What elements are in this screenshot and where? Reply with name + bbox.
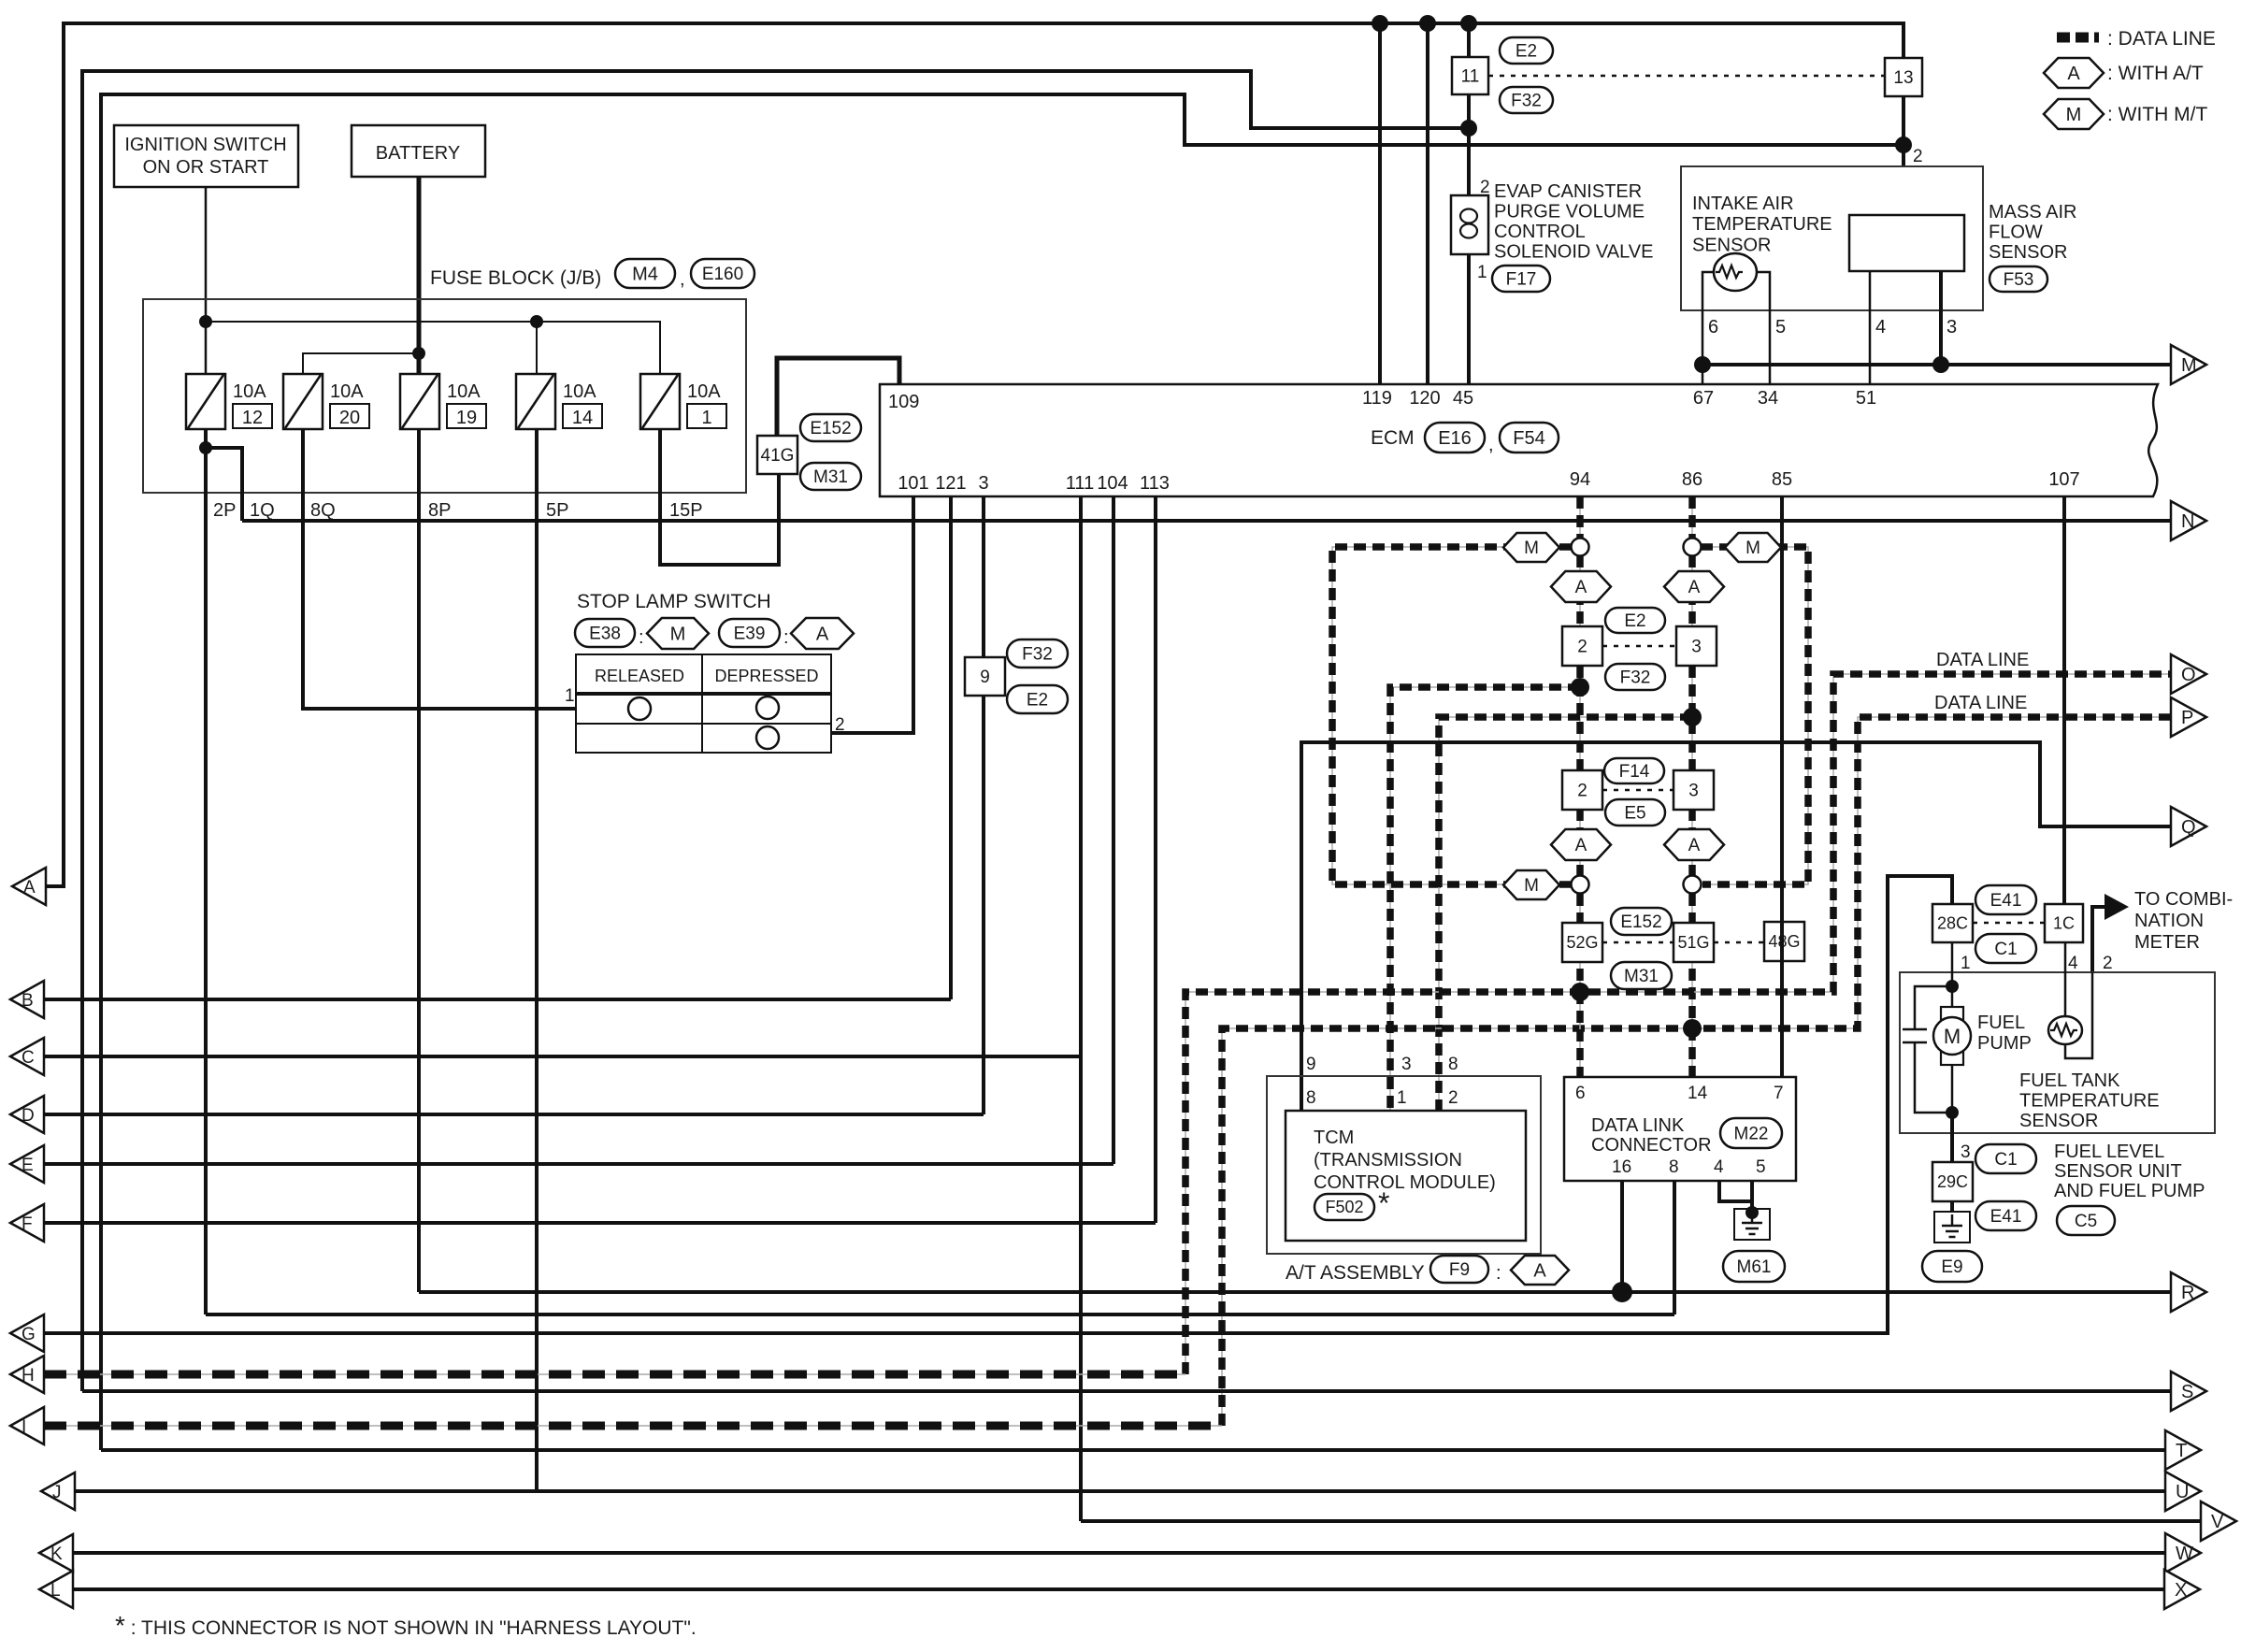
svg-text:STOP LAMP SWITCH: STOP LAMP SWITCH — [577, 591, 771, 612]
wire ECM pin 104 to arrow E — [1112, 496, 1115, 1164]
svg-text:11: 11 — [1461, 66, 1480, 86]
connector terminal 48G — [1764, 922, 1804, 961]
wire J/U line — [74, 1489, 2165, 1493]
wire net-A top bus: arrow A up left side and across top — [44, 23, 1903, 886]
svg-text:1: 1 — [1477, 263, 1487, 282]
wire to combination meter with arrowhead — [2092, 907, 2105, 972]
fuse 20 10A — [283, 374, 323, 429]
svg-text:A: A — [1688, 578, 1701, 597]
hexagon A (E39 with A/T) — [791, 618, 854, 649]
svg-text::: : — [639, 627, 644, 648]
svg-text:7: 7 — [1774, 1084, 1784, 1103]
fuse 12 10A — [186, 374, 225, 429]
svg-text:,: , — [680, 269, 685, 290]
svg-text:F9: F9 — [1449, 1260, 1470, 1280]
svg-text:34: 34 — [1758, 388, 1778, 409]
svg-text:FUEL: FUEL — [1977, 1013, 2025, 1033]
connector terminal 9 — [965, 657, 1005, 696]
arrow S — [2171, 1372, 2206, 1411]
connector terminal 3 (F14/E5) — [1674, 770, 1714, 810]
wire L/X line — [74, 1587, 2164, 1591]
svg-text:TCM: TCM — [1314, 1128, 1354, 1148]
junction dot DLC16/R — [1612, 1282, 1632, 1302]
svg-text:A: A — [1533, 1260, 1546, 1281]
svg-text:FUEL LEVEL: FUEL LEVEL — [2054, 1142, 2164, 1162]
svg-text:A: A — [2067, 64, 2080, 84]
arrow M — [2171, 345, 2206, 384]
wire fuse1 to 15P pin, elbow to 41G — [660, 429, 779, 565]
arrow D — [10, 1096, 44, 1133]
svg-text:1: 1 — [565, 686, 575, 706]
junction dots on top bus — [1372, 15, 1388, 32]
connector E2 oval (mid) — [1605, 608, 1665, 633]
wire fuse12 to 2P pin — [204, 429, 208, 1314]
svg-text:MASS AIR: MASS AIR — [1989, 202, 2076, 223]
svg-text:E160: E160 — [702, 265, 743, 284]
junction dot T-net at MAF pin2 (2036,155) — [1895, 136, 1912, 153]
wire conn13 to MAF junction vertical — [1902, 96, 1905, 215]
connector terminal 51G — [1674, 923, 1714, 962]
svg-text:,: , — [1488, 435, 1494, 455]
svg-text:8: 8 — [1448, 1055, 1458, 1074]
svg-text:4: 4 — [1875, 317, 1886, 338]
svg-text:I: I — [22, 1417, 26, 1437]
svg-text:N: N — [2181, 511, 2194, 532]
connector F9 oval — [1430, 1256, 1488, 1283]
svg-text:M: M — [1524, 539, 1539, 558]
svg-text:86: 86 — [1682, 469, 1702, 490]
wire DLC pin 8 to 2P line — [1673, 1181, 1676, 1314]
data line LD1: H riser, across, up to O — [1185, 674, 2171, 1374]
connector circle on 86 line (bottom) — [1684, 876, 1702, 894]
svg-text:45: 45 — [1453, 388, 1473, 409]
svg-text:2: 2 — [2103, 954, 2113, 973]
legend M hexagon with M/T — [2044, 99, 2104, 129]
connector E41 oval (29C) — [1975, 1201, 2036, 1230]
junction dot conn11 net at (1571,137) — [1460, 120, 1477, 136]
svg-text:M: M — [1745, 539, 1760, 558]
svg-text:J: J — [52, 1483, 62, 1502]
connector F53 oval — [1990, 266, 2047, 292]
svg-text:C1: C1 — [1994, 940, 2017, 959]
svg-text:INTAKE AIR: INTAKE AIR — [1692, 194, 1794, 214]
svg-text:2: 2 — [1913, 147, 1923, 166]
svg-text:M22: M22 — [1734, 1124, 1769, 1143]
svg-text:109: 109 — [888, 392, 919, 412]
arrow R — [2171, 1272, 2206, 1312]
fuse block internal bus — [206, 322, 660, 374]
wire ECM pin 85 through 48G to DLC 7 — [1780, 496, 1784, 1077]
hexagon A on 86 (bottom) — [1664, 829, 1724, 860]
fuel level sensor unit box — [1900, 972, 2215, 1133]
wire net-T upper run: left riser x=108 to MAF pin2 junction — [101, 94, 1903, 1450]
dotted link 2-3 — [1602, 645, 1676, 648]
svg-text:F32: F32 — [1022, 644, 1053, 664]
svg-text:9: 9 — [1306, 1055, 1316, 1074]
wire DLC pin 4 to ground — [1719, 1181, 1752, 1201]
svg-text:5: 5 — [1756, 1157, 1766, 1177]
connector E152 oval (41G) — [800, 414, 861, 441]
wire 28C pin 1 into fuel pump — [1951, 942, 1954, 1007]
hexagon M left (top) — [1503, 533, 1559, 562]
svg-text:E152: E152 — [810, 419, 851, 438]
svg-text:3: 3 — [1691, 637, 1702, 656]
fuse block battery sub-bus — [303, 353, 419, 374]
A/T assembly box — [1267, 1076, 1541, 1254]
svg-text:10A: 10A — [330, 381, 364, 402]
svg-text:10A: 10A — [233, 381, 266, 402]
fuel pump capacitor branch — [1915, 986, 1952, 1029]
svg-text:C5: C5 — [2075, 1212, 2097, 1231]
ground M61 — [1734, 1209, 1770, 1240]
svg-text:119: 119 — [1362, 388, 1392, 409]
data line dot-86 to TCM pin 8 riser — [1439, 717, 1692, 1111]
svg-text:1C: 1C — [2053, 914, 2075, 933]
connector circle on 94 line (top) — [1572, 539, 1589, 556]
svg-text:: WITH A/T: : WITH A/T — [2107, 63, 2204, 84]
svg-text:67: 67 — [1693, 388, 1714, 409]
arrow T — [2165, 1430, 2201, 1470]
MAF inner box — [1849, 215, 1964, 271]
svg-text:E16: E16 — [1438, 428, 1472, 449]
svg-text:FLOW: FLOW — [1989, 223, 2043, 243]
svg-text:A: A — [23, 878, 36, 898]
svg-text:V: V — [2211, 1512, 2224, 1532]
svg-text:U: U — [2176, 1482, 2189, 1502]
svg-text:CONNECTOR: CONNECTOR — [1591, 1135, 1712, 1156]
connector E16 oval — [1425, 423, 1485, 453]
svg-text:8: 8 — [1669, 1157, 1679, 1177]
connector terminal 28C — [1932, 904, 1973, 942]
svg-text:8: 8 — [1306, 1088, 1316, 1108]
connector terminal 2 (E2/F32) — [1562, 626, 1602, 666]
connector terminal 11 — [1452, 57, 1488, 94]
svg-text:PUMP: PUMP — [1977, 1033, 2032, 1054]
data link connector box — [1564, 1077, 1796, 1181]
hexagon A on 94 (top) — [1551, 571, 1611, 602]
svg-text:NATION: NATION — [2134, 911, 2204, 931]
connector terminal 1C — [2045, 904, 2083, 942]
svg-text:A: A — [1575, 578, 1587, 597]
arrow P — [2171, 697, 2206, 737]
svg-text:SENSOR UNIT: SENSOR UNIT — [2054, 1161, 2182, 1182]
hexagon A on 86 (top) — [1664, 571, 1724, 602]
svg-text:AND FUEL PUMP: AND FUEL PUMP — [2054, 1181, 2205, 1201]
svg-text:20: 20 — [339, 408, 360, 428]
connector terminal 29C — [1932, 1162, 1973, 1201]
intake air temperature sensor symbol — [1714, 253, 1757, 291]
connector F14 oval — [1604, 758, 1664, 783]
svg-text:B: B — [22, 991, 34, 1011]
connector F502 oval with asterisk — [1314, 1194, 1374, 1220]
wire M line — [1702, 363, 2171, 366]
svg-text:F14: F14 — [1619, 762, 1650, 782]
data line ECM pin 86 chain — [1691, 496, 1693, 539]
connector F32 oval (top) — [1500, 87, 1553, 113]
svg-text:P: P — [2181, 708, 2193, 728]
svg-text:C1: C1 — [1994, 1150, 2017, 1170]
svg-text:19: 19 — [456, 408, 477, 428]
arrow E — [10, 1145, 44, 1183]
svg-text:G: G — [22, 1325, 36, 1344]
wire ECM pin 121 to arrow B — [949, 496, 953, 999]
wire fuel pump to 29C — [1950, 1113, 1954, 1162]
svg-text:TEMPERATURE: TEMPERATURE — [1692, 214, 1832, 235]
connector E9 oval — [1922, 1251, 1982, 1282]
svg-text:10A: 10A — [563, 381, 596, 402]
svg-text:F502: F502 — [1325, 1198, 1363, 1216]
data line ECM pin 94 chain — [1579, 496, 1581, 539]
svg-text:9: 9 — [980, 668, 990, 687]
connector circle on 94 line (bottom) — [1572, 876, 1589, 894]
svg-text:F53: F53 — [2004, 270, 2034, 290]
svg-text:FUSE BLOCK (J/B): FUSE BLOCK (J/B) — [430, 267, 601, 289]
svg-text:O: O — [2181, 665, 2196, 685]
svg-text:E38: E38 — [589, 624, 621, 643]
junction dot 86/LD2 — [1683, 1019, 1702, 1038]
svg-text:28C: 28C — [1937, 914, 1968, 933]
svg-text:PURGE VOLUME: PURGE VOLUME — [1494, 202, 1645, 223]
svg-text:EVAP CANISTER: EVAP CANISTER — [1494, 181, 1642, 202]
wire fuse14 to 5P pin, to J/U line — [535, 429, 539, 1491]
svg-text:RELEASED: RELEASED — [595, 667, 684, 685]
svg-text:F17: F17 — [1506, 269, 1537, 289]
svg-text:E2: E2 — [1624, 611, 1645, 631]
svg-text:1Q: 1Q — [250, 500, 275, 521]
svg-text:51: 51 — [1856, 388, 1876, 409]
svg-text:3: 3 — [978, 473, 988, 494]
svg-text:S: S — [2181, 1382, 2193, 1402]
data line DLC pin 14 riser — [1691, 1028, 1693, 1077]
wire ECM pin 3 through connector 9 to C line and D line — [982, 496, 985, 1114]
connector E5 oval — [1605, 799, 1665, 826]
arrow L — [39, 1571, 73, 1608]
svg-text:E152: E152 — [1620, 912, 1661, 932]
svg-text:14: 14 — [572, 408, 593, 428]
svg-text:TO COMBI-: TO COMBI- — [2134, 889, 2233, 910]
wire ECM pin 120 — [1426, 23, 1429, 384]
wire ECM pin 111 to C line and V line — [1079, 496, 1083, 1521]
connector circle on 86 line (top) — [1684, 539, 1702, 556]
wire stop lamp pin 2 to ECM 101 — [831, 496, 913, 733]
svg-text:3: 3 — [1947, 317, 1957, 338]
svg-text:E2: E2 — [1027, 690, 1048, 710]
wire DLC pin 16 to R line — [1620, 1181, 1624, 1292]
svg-text:3: 3 — [1961, 1142, 1971, 1162]
svg-text:F: F — [22, 1214, 33, 1234]
legend A hexagon with A/T — [2044, 58, 2104, 88]
svg-text:120: 120 — [1409, 388, 1440, 409]
svg-text:5P: 5P — [546, 500, 568, 521]
battery box — [352, 125, 485, 177]
svg-text:107: 107 — [2048, 469, 2079, 490]
svg-text:12: 12 — [242, 408, 263, 428]
wire T line — [101, 1448, 2165, 1452]
connector M31 oval (mid) — [1611, 962, 1672, 989]
svg-text:113: 113 — [1140, 473, 1170, 494]
svg-text:8Q: 8Q — [310, 500, 336, 521]
connector E152 oval (mid) — [1611, 908, 1672, 935]
stop lamp switch table — [576, 654, 831, 753]
arrow H — [10, 1356, 44, 1393]
wire IAT pin 6 to ECM 67 — [1702, 272, 1715, 384]
arrow F — [10, 1204, 44, 1242]
wire TCM 9 / ECM 85 / DLC 7 / Q net — [1301, 742, 2171, 1111]
svg-text:6: 6 — [1575, 1084, 1586, 1103]
svg-text:E39: E39 — [734, 624, 766, 643]
svg-text::: : — [1496, 1263, 1501, 1284]
arrow O — [2171, 654, 2206, 694]
hexagon M right (top) — [1725, 533, 1781, 562]
svg-text:3: 3 — [1401, 1055, 1412, 1074]
arrow V — [2201, 1501, 2236, 1541]
data line M/T bypass left (M hexagons) — [1332, 547, 1574, 884]
svg-text:C: C — [22, 1048, 35, 1068]
svg-text:E2: E2 — [1516, 41, 1537, 61]
wire C line (arrow C to ECM 111) — [44, 1055, 1081, 1058]
svg-text:4: 4 — [1714, 1157, 1724, 1177]
svg-text:E5: E5 — [1624, 803, 1645, 823]
ground E9 — [1934, 1212, 1970, 1243]
fuel pump motor — [1941, 1007, 1963, 1020]
svg-text:1: 1 — [1397, 1088, 1407, 1108]
svg-text:A/T ASSEMBLY: A/T ASSEMBLY — [1286, 1262, 1425, 1284]
data line dot-94 to TCM pin 3 riser — [1390, 687, 1580, 1111]
wire 29C to ground E9 — [1950, 1201, 1954, 1214]
svg-text:E: E — [22, 1156, 34, 1175]
TCM box — [1286, 1111, 1526, 1241]
svg-text:M: M — [1524, 876, 1539, 896]
svg-text:M: M — [2066, 105, 2082, 125]
stop lamp switch contacts — [628, 697, 651, 720]
fuse 19 10A — [400, 374, 439, 429]
svg-text:Q: Q — [2181, 817, 2196, 838]
junction dot on 94 line — [1571, 678, 1589, 697]
connector C1 oval (29C) — [1975, 1144, 2036, 1173]
connector M31 oval (41G) — [800, 463, 861, 490]
svg-text:DATA LINE: DATA LINE — [1934, 693, 2027, 713]
arrow K — [39, 1534, 73, 1572]
svg-text:L: L — [50, 1581, 61, 1601]
connector C1 oval (28C) — [1975, 934, 2036, 963]
wire fuse20 to 8Q pin, to stop lamp switch pin 1 — [303, 429, 576, 709]
fuel tank temperature sensor — [2064, 942, 2067, 1017]
svg-text:10A: 10A — [447, 381, 481, 402]
connector M22 oval — [1720, 1118, 1782, 1148]
connector E2 oval (9) — [1007, 685, 1068, 713]
junction dot on 86 line (767) — [1683, 708, 1702, 726]
svg-text:10A: 10A — [687, 381, 721, 402]
svg-text:101: 101 — [898, 473, 928, 494]
svg-text:16: 16 — [1612, 1157, 1631, 1177]
svg-text:R: R — [2181, 1283, 2194, 1303]
svg-text:A: A — [1575, 836, 1587, 855]
svg-text:2: 2 — [1577, 637, 1587, 656]
wire R line (8P to arrow R) — [419, 1290, 2171, 1294]
svg-text:29C: 29C — [1937, 1172, 1968, 1191]
svg-text:15P: 15P — [669, 500, 703, 521]
hexagon M (bottom bypass) — [1503, 870, 1559, 899]
svg-text:5: 5 — [1775, 317, 1786, 338]
svg-text:2: 2 — [1448, 1088, 1458, 1108]
wire IAT pin 5 to ECM 34 — [1756, 272, 1770, 384]
arrow G — [10, 1314, 44, 1352]
connector terminal 3 (E2/F32) — [1676, 626, 1717, 666]
svg-text:3: 3 — [1688, 781, 1699, 800]
svg-text:2: 2 — [1577, 781, 1587, 800]
wire ECM pin 113 to arrow F — [1154, 496, 1157, 1223]
wire N line (1Q to arrow N) — [242, 519, 2171, 523]
svg-text:85: 85 — [1772, 469, 1792, 490]
svg-text:FUEL TANK: FUEL TANK — [2019, 1070, 2120, 1091]
svg-text:E41: E41 — [1990, 1207, 2022, 1227]
svg-text:METER: METER — [2134, 932, 2200, 953]
arrow I — [10, 1407, 44, 1444]
connector M4 oval — [615, 259, 675, 288]
hexagon A (A/T assembly) — [1511, 1256, 1569, 1285]
wire MAF pin 3 to M line — [1939, 271, 1943, 365]
arrow C — [10, 1038, 44, 1075]
wire ECM pin 45 via EVAP solenoid — [1467, 23, 1471, 195]
wire MAF pin 4 to ECM 51 — [1869, 271, 1872, 384]
svg-text:52G: 52G — [1566, 933, 1598, 952]
svg-text:M61: M61 — [1737, 1257, 1772, 1277]
arrow Q — [2171, 807, 2206, 846]
connector terminal 41G — [757, 436, 797, 474]
connector F17 oval — [1492, 266, 1550, 292]
arrow A — [12, 868, 46, 905]
wire battery to fuse block (thick) — [417, 177, 422, 374]
connector E2 oval (top) — [1500, 37, 1553, 64]
svg-text:(TRANSMISSION: (TRANSMISSION — [1314, 1150, 1462, 1171]
ignition switch box — [114, 125, 298, 187]
wire G line (arrow G to 28C) — [44, 876, 1952, 1333]
svg-text:111: 111 — [1066, 473, 1094, 494]
wire V line (ECM 111 to arrow V) — [1081, 1519, 2201, 1523]
svg-text:SOLENOID VALVE: SOLENOID VALVE — [1494, 242, 1653, 263]
wire net-S upper run: left riser x=88 to conn11 — [82, 71, 1469, 1391]
arrow U — [2165, 1472, 2201, 1511]
svg-text:41G: 41G — [761, 446, 795, 466]
arrow J — [41, 1472, 75, 1510]
svg-text:W: W — [2176, 1544, 2193, 1564]
connector E160 oval — [691, 259, 754, 288]
fuse 14 10A — [516, 374, 555, 429]
svg-text:2: 2 — [1480, 178, 1490, 197]
svg-text:K: K — [50, 1544, 63, 1564]
connector F54 oval — [1500, 423, 1559, 453]
svg-text:1: 1 — [1961, 954, 1971, 973]
connector F32 oval (mid) — [1605, 664, 1665, 690]
svg-text:121: 121 — [935, 473, 966, 494]
svg-text:M4: M4 — [632, 264, 658, 284]
svg-text:SENSOR: SENSOR — [1989, 242, 2067, 263]
data line H (arrow H to riser) — [44, 1373, 1185, 1375]
svg-text:M: M — [1944, 1025, 1961, 1048]
svg-text:1: 1 — [701, 408, 711, 428]
svg-text:14: 14 — [1688, 1084, 1708, 1103]
svg-text:ON OR START: ON OR START — [143, 157, 269, 178]
svg-text:4: 4 — [2068, 954, 2078, 973]
arrow W — [2165, 1533, 2201, 1573]
connector E41 oval (28C) — [1975, 885, 2036, 914]
svg-text:8P: 8P — [428, 500, 451, 521]
mass air flow sensor outer box — [1681, 166, 1983, 310]
svg-text:CONTROL MODULE): CONTROL MODULE) — [1314, 1172, 1496, 1193]
connector terminal 52G — [1562, 923, 1602, 962]
arrow X — [2164, 1570, 2200, 1609]
svg-text:104: 104 — [1097, 473, 1128, 494]
